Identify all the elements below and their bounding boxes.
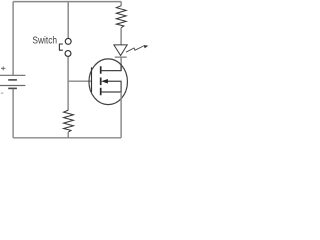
battery B1 plus sign [1, 67, 5, 71]
wire resistor R1 to LED [120, 28, 122, 45]
battery B1 [0, 75, 25, 88]
resistor R2 [64, 110, 74, 132]
MOSFET Q1 channel segments [100, 66, 102, 95]
MOSFET Q1 substrate arrow row and source connection [101, 81, 121, 92]
wire switch to gate tee and resistor R2 [67, 57, 69, 111]
LED D1 triangle [114, 45, 127, 56]
MOSFET Q1 body circle [89, 59, 128, 105]
MOSFET Q1 substrate arrow [101, 79, 108, 83]
wire left branch rail to battery [12, 2, 14, 75]
switch S1 pushbutton contacts [65, 38, 71, 56]
wire gate lead [68, 80, 91, 82]
MOSFET Q1 gate bar [91, 67, 93, 92]
wire switch branch from top rail [67, 2, 69, 39]
resistor R1 [116, 6, 126, 28]
MOSFET Q1 drain connection [101, 64, 121, 71]
svg-text:Switch: Switch [32, 35, 57, 46]
wire MOSFET source to bottom rail [120, 92, 122, 138]
LED light arrows [126, 45, 148, 52]
battery B1 minus sign [1, 92, 3, 94]
wire bottom rail [13, 137, 121, 139]
wire battery to bottom rail [12, 89, 14, 138]
wire LED to MOSFET drain [120, 58, 122, 71]
wire top rail to resistor R1 [120, 2, 122, 6]
LED D1 cathode bar [115, 56, 127, 58]
wire resistor R2 to bottom rail [67, 132, 69, 138]
wire top rail [13, 1, 121, 3]
switch S1 actuator [59, 44, 63, 50]
